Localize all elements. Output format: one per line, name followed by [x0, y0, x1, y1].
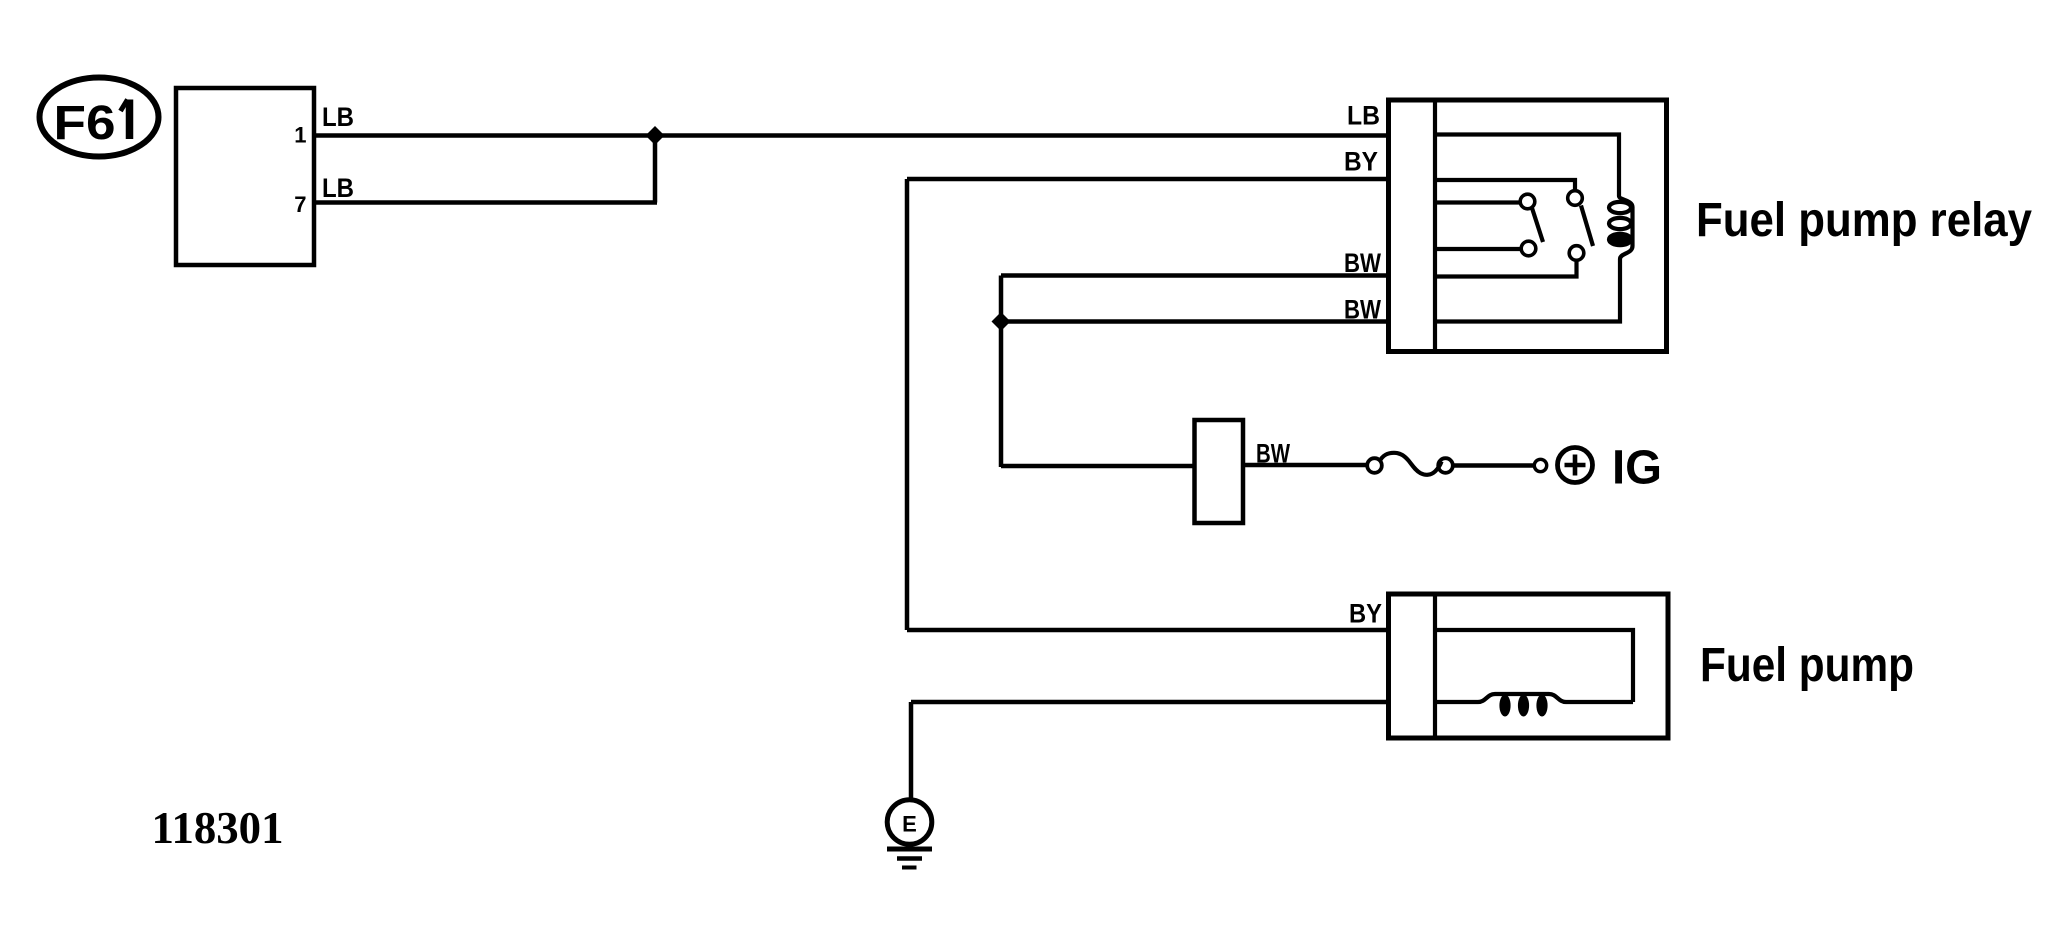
svg-text:F6: F6	[54, 97, 116, 150]
svg-text:BY: BY	[1344, 147, 1378, 177]
svg-text:7: 7	[294, 192, 306, 217]
svg-text:E: E	[902, 812, 917, 837]
svg-text:LB: LB	[1347, 101, 1380, 131]
svg-text:Fuel pump relay: Fuel pump relay	[1696, 194, 2032, 247]
svg-text:LB: LB	[322, 173, 354, 203]
svg-text:Fuel pump: Fuel pump	[1700, 639, 1914, 692]
svg-text:IG: IG	[1612, 442, 1662, 495]
svg-text:118301: 118301	[152, 802, 284, 853]
svg-text:1: 1	[294, 123, 306, 148]
svg-text:LB: LB	[322, 102, 354, 132]
svg-text:BY: BY	[1349, 599, 1382, 629]
